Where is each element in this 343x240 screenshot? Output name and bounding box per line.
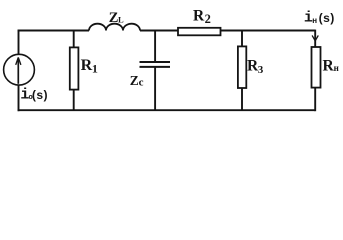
- svg-text:(s): (s): [317, 12, 334, 26]
- svg-text:2: 2: [205, 12, 211, 26]
- svg-text:Z: Z: [130, 73, 139, 88]
- svg-text:c: c: [139, 76, 144, 88]
- svg-text:Z: Z: [109, 10, 119, 26]
- svg-text:н: н: [334, 63, 339, 73]
- svg-text:R: R: [193, 7, 205, 24]
- svg-text:(s): (s): [31, 89, 48, 103]
- svg-text:1: 1: [92, 61, 98, 75]
- svg-text:R: R: [81, 57, 93, 74]
- svg-text:3: 3: [258, 64, 264, 76]
- svg-text:L: L: [118, 15, 124, 25]
